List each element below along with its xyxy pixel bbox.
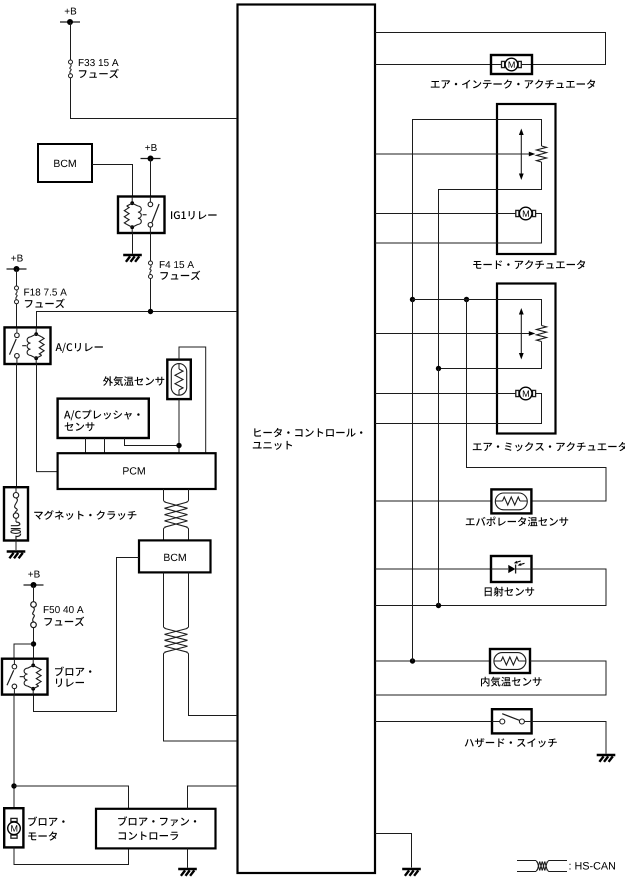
- wire: [375, 500, 491, 502]
- label F50 40 A: [44, 606, 84, 613]
- wire: [413, 120, 542, 300]
- legend HS-CAN twisted pair symbol: [517, 860, 536, 862]
- label blower relay line2: [56, 679, 84, 688]
- wire: [150, 279, 152, 312]
- wire: [163, 489, 165, 501]
- label A/C relay: [56, 343, 103, 353]
- BCM 2 box: [139, 540, 211, 572]
- wire: [85, 438, 87, 453]
- node junction (pot bottom rail): [436, 366, 441, 371]
- wire: [189, 653, 238, 715]
- wire: [16, 304, 18, 328]
- wire: [16, 364, 18, 487]
- label BCM 2: [164, 554, 186, 561]
- hazard switch box: [492, 709, 532, 733]
- PCM powertrain control module box: [58, 453, 216, 489]
- fuse F50 40 A: [31, 602, 37, 628]
- wire: [104, 438, 106, 453]
- wire: [439, 342, 542, 369]
- motor M (blower): [8, 818, 21, 838]
- sensor ambient temperature box: [167, 360, 191, 400]
- node junction (blower relay): [31, 641, 36, 646]
- wire: [132, 233, 134, 254]
- wire: [70, 22, 72, 60]
- node +B terminal (F33): [60, 8, 80, 25]
- sensor A/C pressure box: [58, 399, 149, 438]
- wire: [34, 558, 140, 712]
- blower fan controller box: [96, 809, 216, 849]
- switch (hazard): [492, 714, 532, 724]
- wire: [375, 834, 412, 868]
- label interior temp sensor: [481, 677, 542, 687]
- wire motor feed (mode): [375, 213, 516, 215]
- node +B terminal (IG1 relay): [141, 144, 161, 161]
- label IG1 relay: [171, 211, 217, 220]
- wire: [532, 722, 606, 754]
- fuse F33 15 A: [69, 60, 73, 78]
- sensor evaporator temperature box: [491, 489, 531, 513]
- label air intake actuator: [431, 79, 595, 88]
- label mode actuator: [473, 260, 585, 269]
- wire: [71, 78, 238, 119]
- label hazard switch: [465, 738, 557, 747]
- wire: [33, 628, 35, 659]
- label fuse (F50): [44, 617, 84, 627]
- label A/C pressure sensor line1: [64, 410, 140, 421]
- twisted pair HS-CAN (PCM-BCM): [164, 501, 166, 502]
- node +B terminal (F50): [24, 571, 44, 588]
- wire: [375, 214, 542, 244]
- wire: [375, 33, 606, 65]
- fuse F4 15 A: [149, 261, 153, 279]
- label heater control unit line2: [253, 441, 292, 450]
- label blower relay line1: [55, 667, 91, 677]
- node junction (evap branch): [464, 297, 469, 302]
- label F4 15 A: [160, 261, 194, 268]
- relay A/C: [5, 327, 51, 364]
- sensor sunlight box: [491, 556, 532, 582]
- label evaporator temp sensor: [466, 517, 568, 527]
- wire: [188, 786, 238, 809]
- wire: [163, 528, 165, 540]
- label fuse (F4): [160, 271, 200, 281]
- label A/C pressure sensor line2: [65, 422, 95, 431]
- label fuse (F33): [79, 69, 119, 79]
- wire: [375, 721, 492, 723]
- wire: [375, 568, 491, 570]
- label air mix actuator: [473, 442, 625, 452]
- twisted pair HS-CAN (BCM-unit): [164, 627, 166, 628]
- relay blower: [2, 659, 48, 695]
- wire pot bottom rail: [438, 369, 440, 606]
- wire: [187, 848, 189, 867]
- wire: [15, 541, 17, 551]
- wire: [14, 847, 129, 864]
- relay IG1: [118, 197, 165, 234]
- magnet clutch box: [4, 487, 28, 540]
- potentiometer (mode actuator): [520, 134, 522, 176]
- label F18 7.5 A: [24, 289, 67, 296]
- wire: [178, 399, 180, 453]
- label HS-CAN: [570, 862, 616, 870]
- label BCM: [54, 160, 76, 167]
- ground (heater control unit): [402, 869, 421, 876]
- wire: [92, 165, 133, 197]
- air mix actuator box: [497, 284, 556, 434]
- thermistor (ambient sensor): [171, 364, 186, 396]
- wire: [179, 347, 206, 453]
- blower motor box: [4, 808, 23, 847]
- motor M (air mix actuator): [516, 387, 536, 400]
- wire sensor rail: [412, 300, 414, 662]
- air intake actuator box: [491, 55, 532, 74]
- node junction (pot top rail): [410, 297, 415, 302]
- label blower fan controller line1: [118, 816, 196, 826]
- wire: [413, 300, 542, 326]
- ground (IG1 relay coil): [123, 255, 142, 262]
- wire: [375, 661, 606, 695]
- wire: [150, 159, 152, 197]
- thermistor (evaporator sensor): [495, 493, 527, 510]
- node junction (blower motor): [11, 783, 16, 788]
- label F33 15 A: [79, 59, 119, 66]
- wire: [375, 660, 490, 662]
- wire: [16, 269, 18, 286]
- wire: [163, 572, 165, 627]
- node junction (ambient sensor/PCM): [176, 443, 181, 448]
- label blower motor line1: [28, 817, 64, 827]
- label heater control unit line1: [254, 428, 362, 437]
- wire: [125, 438, 180, 446]
- node junction (sunlight return): [436, 603, 441, 608]
- label magnet clutch: [34, 510, 136, 520]
- wire: [439, 162, 542, 369]
- node +B terminal (F18): [7, 255, 27, 272]
- magnet clutch coil symbol: [11, 487, 21, 540]
- wire: [164, 653, 238, 741]
- node junction (sensor rail): [410, 658, 415, 663]
- wire: [150, 233, 152, 261]
- fuse F18 7.5 A: [15, 286, 19, 304]
- node junction (F4/relay coil): [148, 309, 153, 314]
- photodiode (sunlight sensor): [491, 561, 532, 574]
- label fuse (F18): [25, 299, 65, 309]
- motor M (mode actuator): [516, 207, 536, 220]
- sensor interior temperature box: [490, 649, 530, 673]
- wire: [375, 64, 502, 66]
- wire: [14, 786, 129, 809]
- label ambient temp sensor: [103, 376, 164, 386]
- ground (blower fan controller): [178, 869, 197, 876]
- wire: [375, 394, 542, 424]
- wire: [37, 364, 58, 472]
- ground (hazard switch): [597, 755, 616, 762]
- potentiometer (air mix actuator): [520, 313, 522, 355]
- label blower motor line2: [28, 831, 57, 840]
- heater control unit box: [238, 5, 376, 874]
- wire: [13, 695, 15, 809]
- wire: [37, 312, 238, 328]
- mode actuator box: [497, 104, 556, 254]
- label blower fan controller line2: [119, 832, 179, 841]
- wire: [467, 300, 607, 502]
- label sunlight sensor: [485, 587, 535, 597]
- wire: [375, 569, 606, 606]
- ground (magnet clutch): [7, 552, 26, 559]
- label PCM: [123, 467, 145, 474]
- BCM body control module box: [38, 144, 92, 182]
- wire: [14, 644, 34, 659]
- thermistor (interior sensor): [494, 653, 526, 670]
- motor M (air intake): [502, 58, 522, 71]
- wire: [33, 585, 35, 602]
- wire motor feed (air mix): [375, 393, 516, 395]
